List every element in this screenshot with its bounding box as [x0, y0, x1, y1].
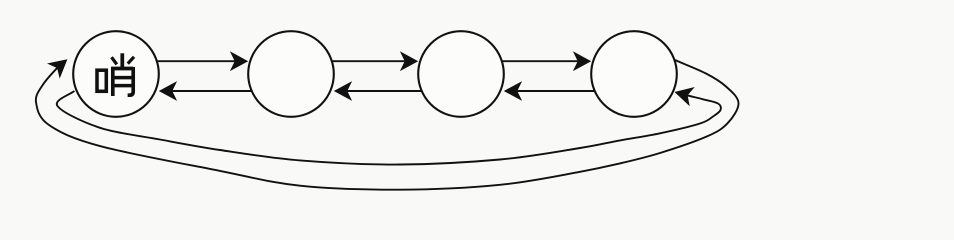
glyph 哨: moon inner bar 2: [114, 84, 131, 87]
glyph 哨: small-top right dot: [128, 57, 134, 64]
node circle: sentinel: [73, 31, 159, 117]
wire: next arrow from sentinel to node 2: [157, 60, 235, 62]
wire loop B: next pointer from last node back to sentinel: [36, 60, 739, 190]
wire: next arrow from node 2 to node 3: [332, 60, 405, 62]
glyph 哨: small-top left dot: [112, 57, 117, 64]
wire: prev arrow from node 3 to node 2: [347, 90, 421, 92]
arrowhead into last node (loop A): [675, 87, 695, 106]
arrowhead into node 3: [504, 81, 522, 101]
glyph 哨: small-top center vertical: [120, 53, 124, 67]
node circle: node 2: [248, 31, 334, 117]
arrowhead into node 3: [400, 51, 418, 71]
arrowhead into sentinel: [159, 81, 177, 101]
glyph 哨: moon left vertical: [111, 67, 115, 96]
wire: next arrow from node 3 to node 4: [502, 60, 578, 62]
wire: prev arrow from node 2 to sentinel: [172, 90, 251, 92]
node circle: node 3: [418, 31, 504, 117]
arrowhead into node 4: [573, 51, 591, 71]
wire: prev arrow from node 4 to node 3: [517, 90, 594, 92]
node circle: node 4: [591, 31, 677, 117]
arrowhead into node 2: [230, 51, 248, 71]
glyph 哨: moon inner bar 1: [114, 76, 131, 79]
arrowhead into node 2: [334, 81, 352, 101]
glyph 哨: moon top bar: [111, 67, 133, 71]
arrowhead into sentinel (loop B): [47, 59, 67, 78]
glyph 哨: moon right vertical with hook: [128, 67, 134, 95]
wire loop A: prev pointer from sentinel to last node: [57, 91, 721, 165]
glyph 哨: mouth radical 口: [97, 70, 106, 91]
